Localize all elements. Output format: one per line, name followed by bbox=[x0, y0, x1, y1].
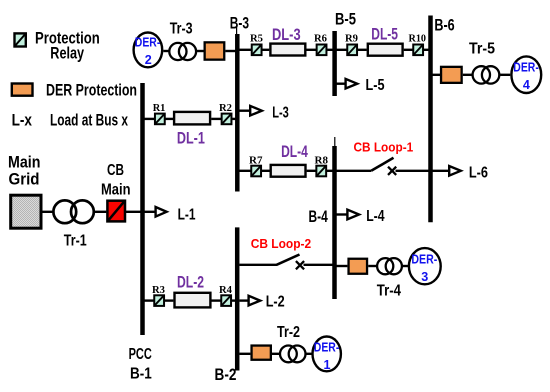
svg-text:R5: R5 bbox=[250, 33, 263, 45]
relay R10 bbox=[413, 45, 423, 56]
transformer Tr-2 bbox=[280, 346, 306, 363]
svg-text:L-1: L-1 bbox=[178, 207, 196, 224]
wire R5 to DL-3 bbox=[262, 49, 269, 51]
load arrow L-2 bbox=[249, 296, 261, 306]
wire R9 to DL-5 bbox=[358, 49, 367, 51]
svg-text:Tr-2: Tr-2 bbox=[277, 324, 300, 341]
wire bus B-1 to R1 (DL-1 feeder) bbox=[144, 118, 155, 120]
svg-text:B-5: B-5 bbox=[335, 11, 356, 29]
DER protection box at Tr-4 bbox=[349, 259, 368, 274]
DER protection box at Tr-2 bbox=[252, 346, 271, 360]
relay R5 bbox=[252, 45, 262, 56]
wire bus B-3 to load L-3 bbox=[239, 109, 250, 111]
svg-text:4: 4 bbox=[523, 77, 531, 92]
line segment DL-5 bbox=[368, 44, 403, 56]
svg-text:Tr-1: Tr-1 bbox=[64, 232, 87, 249]
svg-text:B-6: B-6 bbox=[434, 17, 454, 35]
svg-text:DER Protection: DER Protection bbox=[46, 81, 137, 100]
DER-4 generator bbox=[511, 56, 541, 93]
svg-text:R9: R9 bbox=[345, 33, 358, 45]
open marker x CB Loop-2 bbox=[296, 261, 304, 269]
svg-text:R10: R10 bbox=[409, 33, 427, 45]
svg-text:DER-: DER- bbox=[314, 340, 340, 355]
svg-text:CB: CB bbox=[107, 162, 124, 179]
wire bus B-2 to load L-2 bbox=[240, 299, 249, 301]
svg-text:Relay: Relay bbox=[50, 44, 84, 63]
wire bus B-5 to R9 (DL-5 feeder) bbox=[337, 49, 348, 51]
open marker x CB Loop-1 bbox=[388, 167, 396, 175]
svg-text:DL-4: DL-4 bbox=[281, 143, 308, 161]
bus B-4 bbox=[332, 146, 337, 299]
relay R2 bbox=[222, 114, 232, 125]
transformer Tr-1 bbox=[53, 200, 93, 223]
legend: protection relay symbol bbox=[15, 33, 26, 46]
line segment DL-2 bbox=[175, 293, 211, 308]
relay R8 bbox=[316, 166, 326, 177]
wire R8 to bus B-4 bbox=[327, 170, 333, 172]
svg-text:Tr-4: Tr-4 bbox=[377, 283, 402, 300]
svg-text:R7: R7 bbox=[249, 155, 263, 167]
relay R4 bbox=[221, 295, 231, 306]
relay R6 bbox=[317, 45, 327, 56]
relay R1 bbox=[155, 114, 165, 125]
wire Tr-5 to DER-4 bbox=[500, 74, 510, 76]
svg-text:CB Loop-1: CB Loop-1 bbox=[354, 140, 414, 155]
wire R1 to DL-1 bbox=[166, 118, 174, 120]
wire bus B-1 to load L-1 bbox=[144, 211, 155, 213]
circuit breaker CB Main bbox=[107, 201, 125, 222]
load arrow L-5 bbox=[346, 79, 358, 89]
wire DL-1 to R2 bbox=[211, 118, 221, 120]
wire R4 to bus B-2 bbox=[232, 299, 236, 301]
svg-text:DER-: DER- bbox=[411, 252, 437, 267]
transformer Tr-3 bbox=[169, 43, 196, 60]
bus B-3 bbox=[235, 34, 240, 192]
DER-2 generator bbox=[134, 33, 163, 68]
DER-3 generator bbox=[409, 248, 441, 284]
main grid source bbox=[11, 195, 41, 228]
wire grid to Tr-1 bbox=[43, 211, 54, 213]
relay R7 bbox=[251, 166, 261, 177]
svg-text:DL-2: DL-2 bbox=[177, 274, 204, 292]
line segment DL-3 bbox=[270, 44, 305, 56]
svg-text:R4: R4 bbox=[219, 284, 232, 296]
svg-text:1: 1 bbox=[324, 357, 331, 372]
wire R6 to bus B-5 bbox=[327, 49, 333, 51]
svg-text:DL-5: DL-5 bbox=[371, 25, 398, 43]
line segment DL-4 bbox=[271, 165, 306, 177]
relay R9 bbox=[347, 45, 357, 56]
svg-text:2: 2 bbox=[145, 52, 152, 67]
svg-text:R1: R1 bbox=[153, 102, 166, 114]
wire bus B-2 to CB Loop-2 hinge bbox=[240, 264, 278, 266]
wire DER protection to Tr-2 bbox=[272, 353, 280, 355]
bus B-6 bbox=[428, 16, 433, 223]
load arrow L-6 bbox=[449, 166, 461, 176]
svg-text:B-3: B-3 bbox=[230, 14, 249, 32]
svg-text:Main: Main bbox=[101, 182, 131, 199]
load arrow L-3 bbox=[250, 106, 262, 116]
svg-text:L-5: L-5 bbox=[366, 77, 385, 94]
wire bus B-6 to DER protection (Tr-5 branch) bbox=[433, 74, 441, 76]
svg-text:3: 3 bbox=[421, 269, 428, 284]
wire bus B-4 to load L-4 bbox=[337, 213, 348, 215]
wire bus B-3 to R7 (DL-4 feeder) bbox=[239, 170, 251, 172]
svg-text:B-4: B-4 bbox=[309, 208, 329, 226]
svg-text:DL-3: DL-3 bbox=[272, 26, 301, 44]
svg-text:L-x: L-x bbox=[12, 111, 33, 130]
wire DER protection to Tr-5 bbox=[463, 74, 472, 76]
svg-text:Tr-3: Tr-3 bbox=[170, 21, 193, 38]
DER protection box at Tr-3 bbox=[205, 42, 225, 59]
svg-text:B-1: B-1 bbox=[130, 366, 152, 383]
wire CB Loop-1 to load L-6 (crosses B-6) bbox=[396, 170, 450, 172]
wire bus B-2 to DER protection (Tr-2 branch) bbox=[240, 353, 251, 355]
transformer Tr-4 bbox=[377, 258, 402, 274]
wire CB Main to bus B-1 bbox=[126, 211, 141, 213]
svg-text:Grid: Grid bbox=[9, 170, 40, 189]
wire DER-2 to Tr-3 bbox=[163, 50, 169, 52]
bus B-5 bbox=[332, 31, 337, 96]
svg-text:R3: R3 bbox=[152, 284, 165, 296]
bus B-2 bbox=[235, 227, 240, 370]
svg-text:R2: R2 bbox=[219, 102, 232, 114]
svg-text:Tr-5: Tr-5 bbox=[469, 40, 495, 57]
svg-text:B-2: B-2 bbox=[215, 366, 237, 384]
wire Tr-4 to DER-3 bbox=[403, 265, 408, 267]
switch blade CB Loop-2 bbox=[277, 255, 300, 265]
wire DL-4 to R8 bbox=[307, 170, 316, 172]
wire DER protection to Tr-4 bbox=[368, 265, 377, 267]
wire Tr-2 to DER-1 bbox=[306, 353, 311, 355]
wire bus B-1 to R3 (DL-2 feeder) bbox=[144, 299, 154, 301]
svg-text:CB Loop-2: CB Loop-2 bbox=[251, 236, 312, 251]
svg-text:R8: R8 bbox=[315, 155, 329, 167]
load arrow L-4 bbox=[347, 210, 359, 220]
wire bus B-4 to DER protection (Tr-4 branch) bbox=[337, 265, 348, 267]
wire DL-3 to R6 bbox=[306, 49, 316, 51]
wire Tr-1 to CB Main bbox=[95, 211, 107, 213]
svg-text:L-3: L-3 bbox=[272, 105, 289, 122]
line segment DL-1 bbox=[174, 112, 210, 125]
bus B-1 bbox=[140, 83, 145, 335]
transformer Tr-5 bbox=[473, 66, 500, 83]
wire DER protection to bus B-3 bbox=[225, 50, 236, 52]
svg-text:Load at Bus x: Load at Bus x bbox=[50, 111, 128, 130]
wire Tr-3 to DER protection bbox=[197, 50, 204, 52]
legend: DER protection symbol bbox=[12, 84, 33, 96]
load arrow L-1 bbox=[156, 207, 167, 217]
svg-text:L-4: L-4 bbox=[366, 208, 385, 225]
wire bus B-3 to R5 (DL-3 feeder) bbox=[239, 49, 252, 51]
wire R3 to DL-2 bbox=[165, 299, 174, 301]
svg-text:R6: R6 bbox=[314, 33, 327, 45]
DER protection box at Tr-5 bbox=[441, 67, 462, 83]
wire CB Loop-2 to bus B-4 bbox=[304, 264, 334, 266]
svg-text:L-6: L-6 bbox=[469, 165, 488, 182]
wire DL-5 to R10 bbox=[404, 49, 413, 51]
wire R10 to bus B-6 bbox=[424, 49, 429, 51]
relay R3 bbox=[154, 295, 164, 306]
wire R2 to bus B-3 bbox=[232, 118, 236, 120]
svg-text:DL-1: DL-1 bbox=[177, 130, 205, 148]
switch blade CB Loop-1 bbox=[371, 158, 393, 171]
wire R7 to DL-4 bbox=[262, 170, 270, 172]
DER-1 generator bbox=[313, 337, 341, 373]
svg-text:L-2: L-2 bbox=[266, 294, 285, 311]
wire bus B-4 to CB Loop-1 hinge bbox=[337, 170, 372, 172]
wire bus B-5 to load L-5 bbox=[337, 82, 346, 84]
wire DL-2 to R4 bbox=[211, 299, 220, 301]
svg-text:PCC: PCC bbox=[129, 346, 152, 363]
svg-text:DER-: DER- bbox=[513, 60, 539, 75]
svg-text:DER-: DER- bbox=[135, 35, 161, 50]
